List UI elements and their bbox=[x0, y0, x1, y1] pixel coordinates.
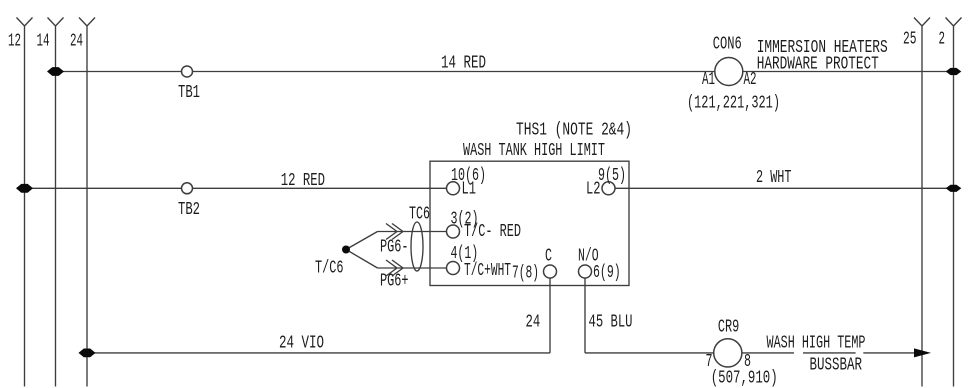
svg-text:14 RED: 14 RED bbox=[441, 54, 486, 74]
svg-text:TB1: TB1 bbox=[178, 83, 200, 103]
svg-text:CR9: CR9 bbox=[718, 318, 739, 338]
svg-text:12 RED: 12 RED bbox=[281, 171, 325, 191]
svg-text:9(5): 9(5) bbox=[598, 166, 626, 186]
svg-text:2 WHT: 2 WHT bbox=[756, 168, 792, 188]
svg-text:PG6+: PG6+ bbox=[380, 272, 409, 292]
svg-text:WASH HIGH TEMP: WASH HIGH TEMP bbox=[767, 333, 866, 353]
svg-text:2: 2 bbox=[939, 30, 946, 50]
svg-text:24: 24 bbox=[526, 313, 541, 333]
svg-text:PG6-: PG6- bbox=[380, 238, 409, 258]
svg-text:L2: L2 bbox=[586, 180, 601, 200]
svg-text:BUSSBAR: BUSSBAR bbox=[810, 356, 863, 376]
svg-text:14: 14 bbox=[37, 32, 50, 52]
svg-text:A2: A2 bbox=[744, 70, 757, 90]
svg-text:TC6: TC6 bbox=[409, 205, 430, 225]
svg-text:T/C+WHT: T/C+WHT bbox=[464, 261, 511, 281]
svg-text:A1: A1 bbox=[702, 70, 715, 90]
svg-text:CON6: CON6 bbox=[713, 35, 742, 55]
svg-text:L1: L1 bbox=[462, 180, 477, 200]
svg-text:25: 25 bbox=[903, 30, 917, 50]
svg-text:(507,910): (507,910) bbox=[711, 369, 778, 388]
svg-text:T/C- RED: T/C- RED bbox=[464, 222, 521, 242]
svg-text:6(9): 6(9) bbox=[593, 263, 621, 283]
svg-text:THS1 (NOTE 2&4): THS1 (NOTE 2&4) bbox=[516, 121, 632, 141]
svg-text:TB2: TB2 bbox=[178, 200, 200, 220]
svg-text:(121,221,321): (121,221,321) bbox=[687, 94, 780, 114]
svg-text:24: 24 bbox=[70, 32, 83, 52]
svg-text:45 BLU: 45 BLU bbox=[589, 313, 633, 333]
svg-text:C: C bbox=[545, 247, 552, 267]
svg-text:HARDWARE PROTECT: HARDWARE PROTECT bbox=[757, 55, 879, 75]
svg-text:T/C6: T/C6 bbox=[315, 259, 344, 279]
svg-text:24 VIO: 24 VIO bbox=[279, 334, 324, 354]
svg-text:WASH TANK HIGH LIMIT: WASH TANK HIGH LIMIT bbox=[463, 141, 605, 161]
svg-text:12: 12 bbox=[8, 32, 21, 52]
svg-text:7(8): 7(8) bbox=[512, 264, 539, 284]
